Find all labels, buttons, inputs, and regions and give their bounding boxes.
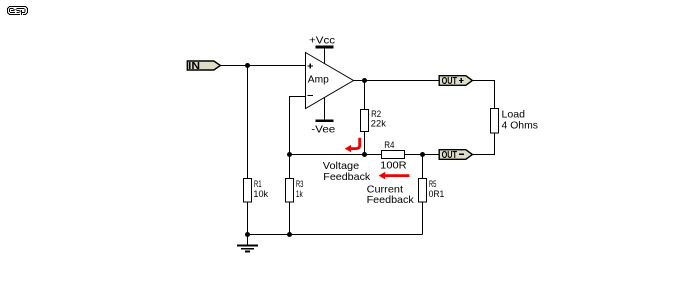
tag OUT- xyxy=(439,150,472,160)
svg-text:1k: 1k xyxy=(296,189,303,199)
svg-text:Amp: Amp xyxy=(308,74,329,85)
svg-text:OUT: OUT xyxy=(442,149,458,161)
tag OUT+ xyxy=(439,76,472,86)
wire: R2 top xyxy=(364,81,366,110)
svg-text:22k: 22k xyxy=(371,119,387,129)
svg-text:0R1: 0R1 xyxy=(429,189,445,199)
arrow: voltage feedback (red return arrow) xyxy=(345,138,360,153)
wire: R3 bottom xyxy=(289,202,291,235)
svg-text:R1: R1 xyxy=(254,179,262,189)
power -Vee bar xyxy=(316,119,334,122)
ESP logo xyxy=(8,7,28,16)
node: feedback left junction xyxy=(287,152,292,157)
resistor R5 xyxy=(419,179,427,203)
arrow: current feedback (red straight arrow) xyxy=(379,172,410,180)
svg-text:R2: R2 xyxy=(371,109,381,119)
svg-text:100R: 100R xyxy=(380,161,406,172)
ground xyxy=(237,235,258,252)
wire: R2 bottom xyxy=(364,132,366,155)
svg-text:-Vee: -Vee xyxy=(311,124,335,135)
resistor R2 xyxy=(361,110,369,132)
svg-text:+Vcc: +Vcc xyxy=(309,36,335,47)
node: rail junction R1 xyxy=(245,232,250,237)
op-amp U1 xyxy=(306,53,354,109)
svg-text:R5: R5 xyxy=(429,179,437,189)
wire: R1 bottom xyxy=(247,202,249,235)
wire: IN to op-amp + input xyxy=(221,65,306,67)
wire: OUT+ to load xyxy=(473,81,495,109)
wire: R5 top xyxy=(422,155,424,179)
node: R2 bottom junction xyxy=(362,152,367,157)
resistor R3 xyxy=(286,179,294,203)
svg-text:R4: R4 xyxy=(384,140,394,150)
svg-text:Voltage: Voltage xyxy=(323,161,360,172)
node: R5 top junction xyxy=(420,152,425,157)
wire: load bottom to OUT- tip xyxy=(473,133,495,155)
wire: R3 top xyxy=(289,155,291,179)
svg-text:OUT: OUT xyxy=(442,75,458,87)
svg-text:R3: R3 xyxy=(296,179,304,189)
svg-text:IN: IN xyxy=(188,60,200,72)
power +Vcc bar xyxy=(316,46,334,49)
wire: R1 branch down xyxy=(247,66,249,179)
svg-text:Feedback: Feedback xyxy=(367,195,415,206)
tag IN xyxy=(187,61,220,70)
wire: inverting input from feedback node xyxy=(290,97,306,155)
resistor R1 xyxy=(244,179,252,203)
resistor Load xyxy=(491,109,499,134)
wire: op-amp output to OUT+ tag xyxy=(354,80,439,82)
node: rail junction R3 xyxy=(287,232,292,237)
power +Vcc stem xyxy=(324,48,326,64)
svg-text:Current: Current xyxy=(367,185,404,196)
power -Vee stem xyxy=(324,97,326,120)
svg-text:Feedback: Feedback xyxy=(323,172,371,183)
wire: R5 bottom xyxy=(422,202,424,235)
wire: R4 right to OUT- xyxy=(405,154,439,156)
svg-text:Load: Load xyxy=(502,110,526,121)
wire: ground rail xyxy=(248,234,423,236)
wire: feedback line left part xyxy=(290,154,382,156)
node: input junction xyxy=(245,63,250,68)
svg-text:10k: 10k xyxy=(253,189,268,199)
svg-text:4 Ohms: 4 Ohms xyxy=(502,121,539,132)
node: output junction xyxy=(362,78,367,83)
resistor R4 xyxy=(382,151,405,159)
